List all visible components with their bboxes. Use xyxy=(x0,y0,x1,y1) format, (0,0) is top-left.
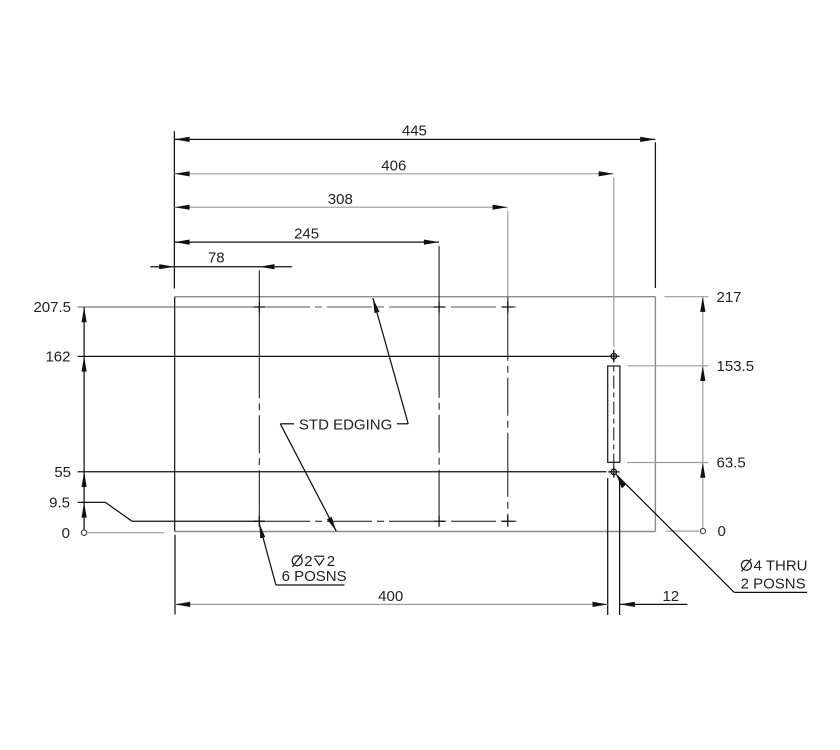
slot centerline xyxy=(613,350,615,478)
hole center cross (78,207.5) xyxy=(254,302,265,313)
hole row 207.5: centerline part xyxy=(265,306,516,308)
dimension 308 xyxy=(174,191,507,210)
line 55 xyxy=(78,471,607,473)
thru hole note leader xyxy=(616,475,807,593)
hole column centerline x=259.3 xyxy=(258,270,260,521)
svg-text:12: 12 xyxy=(662,588,679,605)
thru hole note: dia 4 THRU xyxy=(741,557,807,574)
dimension 245 xyxy=(174,226,439,245)
left datum symbol xyxy=(81,530,86,535)
drilled hole note leader xyxy=(259,523,344,585)
arrow at 63.5 xyxy=(700,463,705,478)
svg-text:2 POSNS: 2 POSNS xyxy=(741,576,806,593)
slot outline xyxy=(608,366,620,462)
panel outline left edge xyxy=(174,297,176,532)
svg-text:308: 308 xyxy=(328,191,353,208)
svg-text:445: 445 xyxy=(402,123,427,140)
svg-text:162: 162 xyxy=(45,349,70,366)
dimension 12 xyxy=(620,588,688,607)
hole center cross (245,207.5) xyxy=(434,302,445,313)
9.5 stub and jog xyxy=(78,502,265,521)
svg-text:153.5: 153.5 xyxy=(717,358,755,375)
extension line below panel left (x=175) xyxy=(174,535,176,615)
STD EDGING right leader to top edge xyxy=(373,298,408,424)
svg-text:0: 0 xyxy=(718,523,726,540)
arrow at 217 xyxy=(700,297,705,312)
hole marker (406,55) xyxy=(608,466,619,477)
svg-text:STD EDGING: STD EDGING xyxy=(299,416,392,433)
hole marker (406,162) xyxy=(608,351,619,362)
dimension 78 (arrows outside) xyxy=(150,249,292,269)
right ordinate dimension line (x=702.8) xyxy=(702,297,704,529)
hole center cross (308,9.5) xyxy=(502,516,513,527)
extension line for 308 (x=507.8, above panel) xyxy=(507,211,509,297)
arrow at 207.5 xyxy=(82,307,87,322)
svg-text:0: 0 xyxy=(62,525,70,542)
arrow at 153.5 xyxy=(700,366,705,381)
hole column centerline x=439.1 xyxy=(438,246,440,522)
svg-text:406: 406 xyxy=(381,158,406,175)
arrow at 9.5 xyxy=(82,502,87,517)
svg-text:245: 245 xyxy=(294,226,319,243)
dimension 400 xyxy=(175,588,608,607)
extension line for 406 down to slot (x=613.8) xyxy=(613,177,615,347)
hole center cross (245,9.5) xyxy=(434,516,445,527)
line 153.5 xyxy=(628,365,709,367)
panel outline right edge xyxy=(654,297,656,532)
hole row 207.5: solid part xyxy=(78,306,265,308)
drilled hole note: dia 2 depth 2 xyxy=(292,553,335,570)
dimension 445 xyxy=(174,123,655,142)
extension line left (x=174.4) xyxy=(173,131,175,288)
svg-text:217: 217 xyxy=(717,289,742,306)
STD EDGING left leader to bottom edge xyxy=(280,424,336,531)
dimension 406 xyxy=(174,158,613,177)
arrow at 162 xyxy=(82,356,87,371)
right datum 0 line xyxy=(666,530,699,532)
panel outline top edge xyxy=(175,296,655,298)
hole center cross (78,9.5) xyxy=(254,516,265,527)
svg-text:207.5: 207.5 xyxy=(33,299,71,316)
left datum 0 line xyxy=(87,532,164,534)
line 217 xyxy=(664,296,708,298)
hole row 9.5: centerline part xyxy=(265,520,516,522)
left ordinate dimension line (x=84.1) xyxy=(83,307,85,530)
svg-text:6 POSNS: 6 POSNS xyxy=(282,568,347,585)
svg-text:78: 78 xyxy=(208,249,225,266)
hole center cross (308,207.5) xyxy=(502,302,513,313)
svg-text:4 THRU: 4 THRU xyxy=(754,557,808,574)
right datum symbol xyxy=(700,529,705,534)
svg-text:400: 400 xyxy=(378,588,403,605)
extension lines below slot xyxy=(607,478,609,615)
line 162 xyxy=(78,355,608,357)
svg-text:63.5: 63.5 xyxy=(717,455,746,472)
hole column centerline x=507.8 xyxy=(507,297,509,522)
arrow at 55 xyxy=(82,472,87,487)
extension line right for 445 (x=655.4) xyxy=(654,142,656,288)
line 63.5 xyxy=(627,462,708,464)
panel outline bottom edge xyxy=(175,531,655,533)
svg-text:9.5: 9.5 xyxy=(49,495,70,512)
svg-text:55: 55 xyxy=(54,464,71,481)
